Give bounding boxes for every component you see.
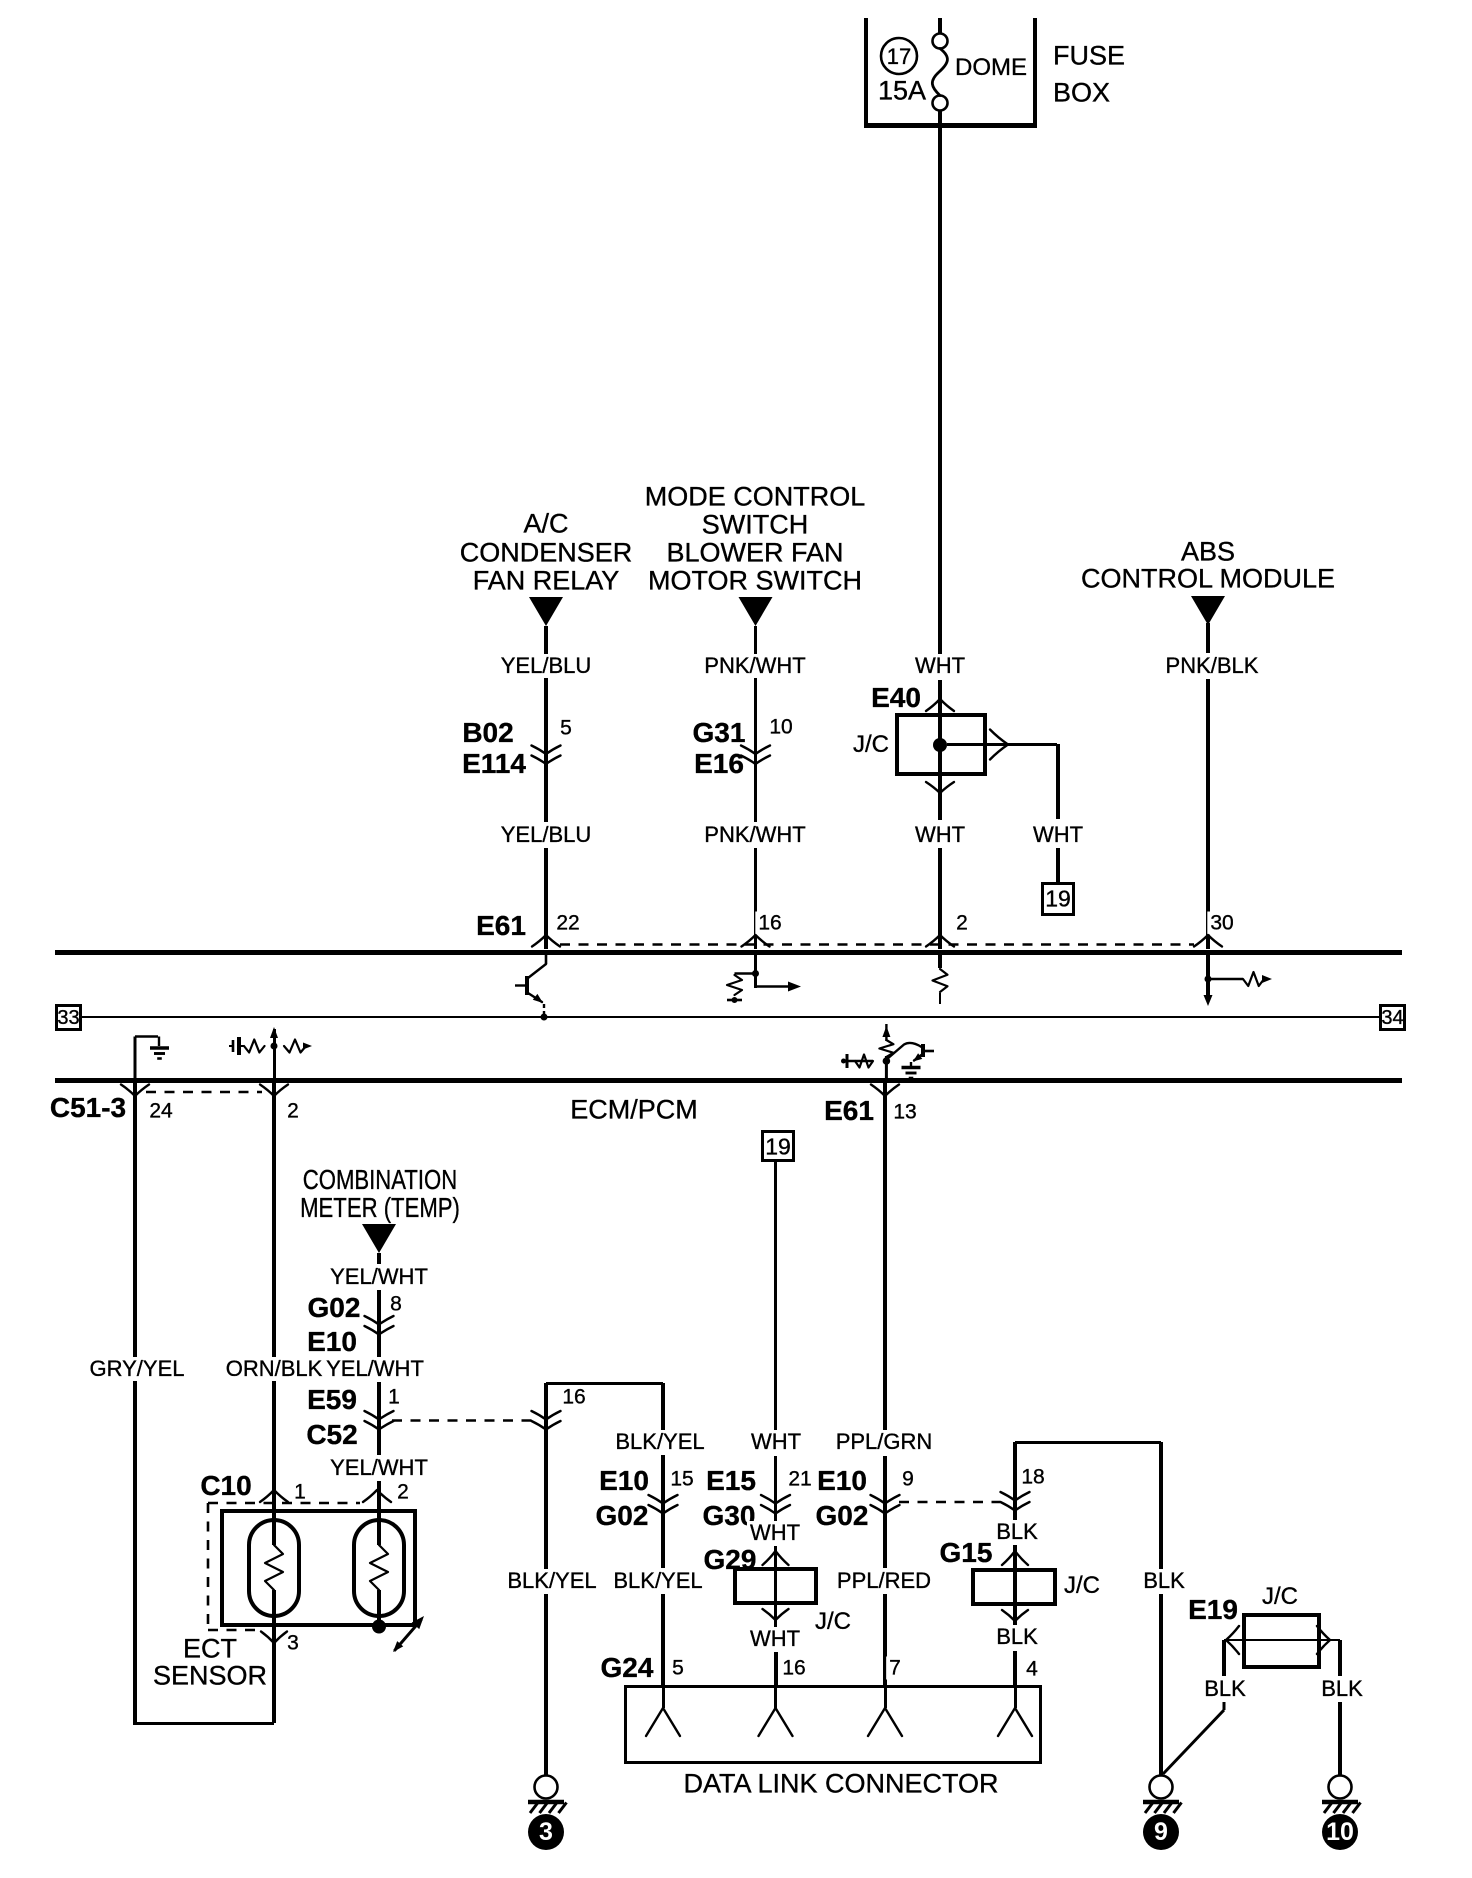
svg-text:10: 10 [1326, 1818, 1354, 1846]
svg-text:9: 9 [1154, 1818, 1168, 1846]
svg-text:3: 3 [539, 1818, 553, 1846]
